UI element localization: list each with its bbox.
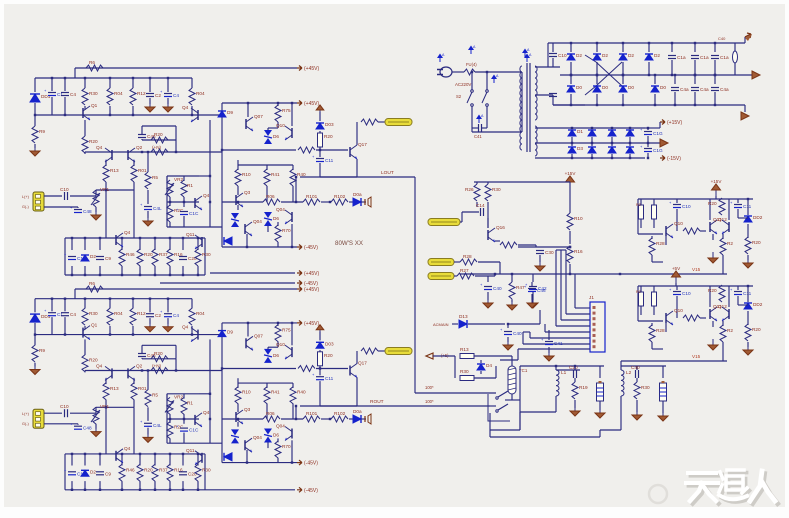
wire bbox=[154, 238, 156, 250]
wire bbox=[647, 143, 649, 147]
svg-text:C1a: C1a bbox=[700, 55, 709, 60]
ground bbox=[34, 364, 36, 370]
capacitor C4 bbox=[61, 92, 69, 94]
svg-text:80W'S XX: 80W'S XX bbox=[335, 240, 363, 247]
wire bbox=[591, 128, 593, 129]
wire bbox=[99, 481, 101, 490]
wire bbox=[539, 255, 541, 262]
wire bbox=[555, 396, 557, 412]
junction bbox=[295, 201, 297, 203]
junction bbox=[569, 273, 571, 275]
wire bbox=[478, 261, 500, 263]
svg-text:D0a: D0a bbox=[353, 192, 362, 197]
svg-text:C20: C20 bbox=[569, 365, 578, 370]
junction bbox=[154, 453, 156, 455]
junction bbox=[141, 151, 143, 153]
wire bbox=[712, 321, 714, 327]
resistor R13 bbox=[103, 165, 109, 182]
wire bbox=[651, 255, 653, 262]
wire bbox=[84, 371, 86, 373]
dual diode bbox=[231, 213, 239, 219]
harness wire bbox=[556, 325, 590, 327]
svg-text:R06: R06 bbox=[266, 411, 275, 416]
ground bbox=[712, 252, 714, 258]
capacitor C11 bbox=[734, 291, 742, 293]
resistor R2 bbox=[720, 325, 726, 342]
svg-text:Q04: Q04 bbox=[276, 207, 285, 212]
wire bbox=[747, 224, 749, 238]
svg-text:100*: 100* bbox=[425, 385, 434, 390]
wire bbox=[487, 292, 489, 300]
svg-text:Q11: Q11 bbox=[186, 448, 195, 453]
wire bbox=[175, 345, 177, 359]
resistor R06 bbox=[263, 416, 280, 422]
resistor R20 bbox=[82, 355, 88, 372]
resistor bbox=[500, 242, 517, 248]
svg-text:Q10: Q10 bbox=[674, 308, 683, 313]
svg-text:Q4: Q4 bbox=[182, 105, 189, 110]
diode DD2 bbox=[744, 216, 752, 222]
junction bbox=[132, 298, 134, 300]
wire bbox=[121, 238, 123, 250]
wire bbox=[319, 381, 321, 406]
wire bbox=[482, 127, 487, 129]
wire bbox=[204, 238, 206, 275]
transistor Q3 bbox=[235, 412, 237, 422]
wire bbox=[34, 323, 36, 335]
wire bbox=[596, 94, 598, 105]
resistor R20 bbox=[318, 133, 323, 147]
wire bbox=[292, 383, 294, 388]
junction bbox=[197, 237, 199, 239]
wire bbox=[653, 219, 655, 228]
wire bbox=[694, 43, 696, 52]
wire bbox=[238, 382, 293, 384]
switch S1b bbox=[486, 90, 489, 93]
inductor L1 bbox=[556, 370, 559, 396]
junction bbox=[139, 237, 141, 239]
wire bbox=[535, 245, 537, 247]
junction bbox=[109, 298, 111, 300]
svg-text:R16: R16 bbox=[574, 249, 583, 254]
wire bbox=[531, 282, 533, 287]
wire bbox=[169, 414, 171, 419]
wire bbox=[721, 198, 723, 200]
svg-text:C4a: C4a bbox=[700, 87, 709, 92]
wire bbox=[462, 211, 479, 213]
resistor R1 bbox=[181, 397, 187, 414]
capacitor C45 bbox=[138, 134, 146, 136]
junction bbox=[694, 74, 696, 76]
junction bbox=[169, 418, 171, 420]
diode bbox=[224, 237, 232, 245]
junction bbox=[591, 142, 593, 144]
wire bbox=[487, 182, 489, 184]
junction bbox=[648, 74, 650, 76]
svg-text:C1C: C1C bbox=[189, 428, 199, 433]
svg-text:D2: D2 bbox=[90, 254, 96, 259]
wire bbox=[84, 152, 86, 154]
wire bbox=[486, 106, 488, 128]
wire bbox=[84, 106, 86, 110]
rail terminal (-45V) bbox=[297, 281, 302, 286]
wire bbox=[676, 286, 678, 290]
rail terminal (-45V) bbox=[297, 487, 302, 492]
diode D03 bbox=[316, 342, 324, 348]
junction bbox=[511, 273, 513, 275]
resistor bbox=[683, 228, 700, 234]
wire bbox=[574, 378, 576, 382]
svg-text:R9: R9 bbox=[39, 129, 45, 134]
wire bbox=[738, 217, 748, 219]
resistor R2 bbox=[720, 238, 726, 255]
rail terminal (+45V) bbox=[297, 320, 302, 325]
wire bbox=[175, 126, 177, 140]
wire bbox=[320, 405, 357, 407]
wire bbox=[433, 355, 455, 357]
junction bbox=[671, 42, 673, 44]
svg-text:VR1: VR1 bbox=[100, 187, 110, 192]
svg-text:R75: R75 bbox=[282, 108, 291, 113]
ground bbox=[147, 431, 149, 437]
wire bbox=[747, 199, 749, 215]
wire bbox=[599, 366, 601, 378]
junction bbox=[611, 127, 613, 129]
wire bbox=[647, 136, 649, 143]
wire bbox=[611, 154, 613, 158]
junction bbox=[471, 71, 473, 73]
resistor R30 bbox=[485, 184, 491, 201]
wire bbox=[266, 186, 268, 202]
diode bbox=[608, 147, 616, 153]
resistor R20 bbox=[745, 237, 751, 254]
wire bbox=[653, 199, 655, 205]
resistor R46 bbox=[119, 249, 125, 266]
svg-text:(+45V): (+45V) bbox=[304, 321, 319, 327]
svg-text:R20: R20 bbox=[144, 252, 153, 257]
transistor Q11 bbox=[201, 453, 203, 463]
wire bbox=[183, 197, 185, 202]
junction bbox=[84, 77, 86, 79]
wire bbox=[622, 75, 624, 84]
svg-text:R20: R20 bbox=[154, 351, 163, 356]
wire bbox=[722, 255, 724, 262]
wire bbox=[460, 221, 462, 223]
wire bbox=[109, 299, 111, 309]
svg-text:C40: C40 bbox=[718, 36, 726, 41]
wire bbox=[489, 430, 491, 437]
connector J-in bbox=[33, 409, 44, 428]
junction bbox=[647, 142, 649, 144]
svg-text:R37: R37 bbox=[159, 252, 168, 257]
resistor R10 bbox=[567, 213, 573, 230]
wire bbox=[722, 234, 724, 239]
svg-text:C4: C4 bbox=[70, 312, 76, 317]
junction bbox=[611, 157, 613, 159]
fuse FU1 bbox=[464, 69, 475, 75]
junction bbox=[51, 298, 53, 300]
diode D9 bbox=[218, 111, 226, 117]
wire bbox=[555, 250, 557, 326]
resistor bbox=[151, 368, 168, 374]
wire bbox=[154, 266, 156, 275]
diode D2 bbox=[593, 54, 601, 60]
svg-text:C11: C11 bbox=[325, 376, 334, 381]
junction bbox=[197, 274, 199, 276]
junction bbox=[121, 453, 123, 455]
wire bbox=[694, 60, 696, 75]
ground bbox=[147, 215, 149, 221]
svg-text:Q4: Q4 bbox=[124, 230, 131, 235]
junction bbox=[237, 201, 239, 203]
wire bbox=[237, 205, 239, 210]
svg-text:R12: R12 bbox=[137, 311, 146, 316]
wire bbox=[133, 182, 135, 190]
wire bbox=[35, 114, 222, 116]
wire bbox=[169, 454, 171, 466]
rail terminal (+45V) bbox=[297, 271, 302, 276]
junction bbox=[175, 151, 177, 153]
svg-text:DD2: DD2 bbox=[753, 215, 763, 220]
diode D2 bbox=[567, 54, 575, 60]
wire bbox=[238, 164, 293, 166]
wire bbox=[169, 481, 171, 490]
wire bbox=[647, 153, 649, 158]
wire bbox=[471, 106, 473, 128]
wire bbox=[653, 286, 655, 292]
rail terminal (-15V) bbox=[660, 156, 665, 161]
wire bbox=[676, 296, 678, 318]
svg-text:C11: C11 bbox=[325, 158, 334, 163]
resistor R28 bbox=[649, 325, 655, 342]
wire bbox=[149, 98, 151, 104]
wire bbox=[487, 202, 489, 228]
junction bbox=[654, 74, 656, 76]
svg-text:V15: V15 bbox=[692, 354, 701, 359]
svg-text:R20: R20 bbox=[324, 353, 333, 358]
capacitor C9 bbox=[96, 471, 104, 473]
resistor R40 bbox=[290, 169, 296, 186]
junction bbox=[277, 322, 279, 324]
wire bbox=[167, 98, 169, 104]
wire bbox=[132, 78, 134, 88]
resistor R04 bbox=[189, 308, 195, 325]
resistor R30 bbox=[195, 464, 201, 481]
svg-text:100*: 100* bbox=[425, 399, 434, 404]
diode bbox=[626, 147, 634, 153]
wire bbox=[640, 199, 642, 205]
junction bbox=[141, 369, 143, 371]
wire bbox=[356, 159, 358, 177]
junction bbox=[84, 298, 86, 300]
svg-text:R70: R70 bbox=[282, 228, 291, 233]
junction bbox=[329, 201, 331, 203]
wire bbox=[133, 160, 135, 166]
wire bbox=[361, 418, 366, 420]
junction bbox=[139, 489, 141, 491]
resistor R04 bbox=[189, 88, 195, 105]
svg-text:R30: R30 bbox=[89, 311, 98, 316]
wire bbox=[560, 74, 752, 76]
svg-text:R5: R5 bbox=[152, 393, 158, 398]
svg-text:R20: R20 bbox=[154, 132, 163, 137]
wire bbox=[167, 299, 169, 313]
junction bbox=[51, 77, 53, 79]
resistor R2C bbox=[167, 422, 173, 439]
wire bbox=[268, 127, 278, 129]
wire bbox=[622, 94, 624, 105]
wire bbox=[316, 149, 348, 151]
svg-text:R28: R28 bbox=[656, 328, 665, 333]
svg-text:R30: R30 bbox=[202, 252, 211, 257]
wire bbox=[654, 75, 656, 84]
capacitor C40 bbox=[484, 286, 492, 288]
resistor R9 bbox=[32, 345, 38, 362]
svg-text:R41: R41 bbox=[271, 390, 280, 395]
junction bbox=[154, 489, 156, 491]
ground bbox=[747, 344, 749, 350]
wire bbox=[169, 197, 171, 202]
wire bbox=[109, 78, 111, 88]
wire bbox=[277, 222, 279, 226]
wire bbox=[295, 406, 297, 419]
svg-text:R01: R01 bbox=[138, 386, 147, 391]
svg-text:R01: R01 bbox=[138, 168, 147, 173]
connector input B bbox=[385, 348, 412, 355]
diode bbox=[608, 130, 616, 136]
wire bbox=[319, 369, 321, 376]
wire bbox=[142, 125, 176, 127]
ground bbox=[95, 209, 97, 215]
wire bbox=[744, 105, 746, 112]
wire bbox=[221, 103, 223, 247]
diode D4 bbox=[477, 364, 485, 370]
wire bbox=[361, 201, 366, 203]
junction bbox=[209, 175, 211, 177]
wire bbox=[599, 430, 601, 437]
wire bbox=[95, 424, 97, 429]
wire bbox=[715, 196, 717, 199]
wire bbox=[535, 94, 553, 96]
wire bbox=[51, 317, 53, 335]
resistor R46 bbox=[119, 464, 125, 481]
wire bbox=[507, 337, 509, 342]
resistor R10 bbox=[235, 169, 241, 186]
wire LOUT bbox=[300, 176, 415, 178]
wire bbox=[95, 408, 97, 413]
junction bbox=[147, 369, 149, 371]
ground bbox=[599, 407, 601, 413]
resistor R75 bbox=[275, 105, 281, 122]
junction bbox=[197, 489, 199, 491]
terminal aux gnd bbox=[660, 139, 668, 147]
wire bbox=[648, 43, 650, 52]
wire bbox=[520, 411, 556, 413]
capacitor C4L bbox=[144, 422, 152, 424]
harness wire bbox=[518, 348, 590, 350]
wire bbox=[665, 323, 667, 332]
svg-text:FU(4): FU(4) bbox=[466, 62, 477, 67]
connector J-in bbox=[33, 192, 44, 211]
capacitor C10 bbox=[673, 291, 681, 293]
svg-text:R10: R10 bbox=[574, 216, 583, 221]
junction bbox=[64, 298, 66, 300]
wire bbox=[267, 442, 269, 448]
capacitor C10 bbox=[673, 204, 681, 206]
ground bbox=[539, 260, 541, 266]
wire bbox=[149, 318, 151, 324]
wire bbox=[638, 285, 753, 287]
wire bbox=[166, 176, 168, 181]
junction bbox=[109, 77, 111, 79]
wire bbox=[507, 324, 509, 328]
resistor R20 bbox=[151, 137, 168, 143]
fuse F2 bbox=[733, 51, 738, 63]
wire bbox=[71, 454, 73, 466]
resistor R30 bbox=[460, 376, 474, 381]
wire bbox=[139, 238, 141, 250]
ground bbox=[574, 405, 576, 411]
transistor Q4 bbox=[115, 235, 117, 245]
wire bbox=[96, 189, 134, 191]
wire bbox=[548, 42, 745, 44]
capacitor C9 bbox=[96, 256, 104, 258]
transistor Q2 bbox=[127, 150, 129, 160]
ground bbox=[712, 339, 714, 345]
resistor R20 bbox=[719, 198, 725, 215]
wire bbox=[535, 66, 560, 68]
wire bbox=[77, 207, 79, 208]
capacitor C1a bbox=[691, 55, 699, 57]
wire bbox=[629, 128, 631, 129]
svg-text:Q4: Q4 bbox=[182, 325, 189, 330]
svg-text:VR1: VR1 bbox=[100, 404, 110, 409]
junction bbox=[221, 149, 223, 151]
wire bbox=[494, 274, 496, 276]
junction bbox=[132, 114, 134, 116]
wire bbox=[34, 78, 36, 92]
svg-text:R30: R30 bbox=[492, 187, 501, 192]
wire bbox=[277, 323, 279, 326]
relay contact 1 bbox=[496, 397, 498, 399]
power arrow bbox=[319, 110, 321, 116]
wire bbox=[737, 296, 739, 305]
wire bbox=[675, 283, 677, 286]
wire bbox=[511, 274, 513, 282]
wire bbox=[84, 454, 86, 466]
wire bbox=[183, 414, 185, 419]
svg-text:R2: R2 bbox=[727, 241, 733, 246]
wire bbox=[183, 394, 185, 399]
wire bbox=[142, 344, 176, 346]
wire bbox=[356, 122, 358, 145]
wire bbox=[95, 190, 97, 191]
svg-text:Q17: Q17 bbox=[358, 142, 367, 147]
resistor R12 bbox=[130, 88, 136, 105]
ground bbox=[149, 321, 151, 327]
capacitor C4a bbox=[671, 87, 679, 89]
capacitor C48 bbox=[74, 209, 82, 211]
wire bbox=[183, 176, 185, 181]
wire bbox=[209, 120, 211, 227]
junction bbox=[191, 114, 193, 116]
wire bbox=[480, 360, 482, 363]
svg-text:Q11: Q11 bbox=[713, 217, 722, 222]
wire bbox=[548, 347, 550, 353]
svg-text:Q4: Q4 bbox=[96, 363, 103, 368]
svg-text:Q1: Q1 bbox=[91, 323, 98, 328]
transistor Q17 bbox=[349, 366, 351, 376]
